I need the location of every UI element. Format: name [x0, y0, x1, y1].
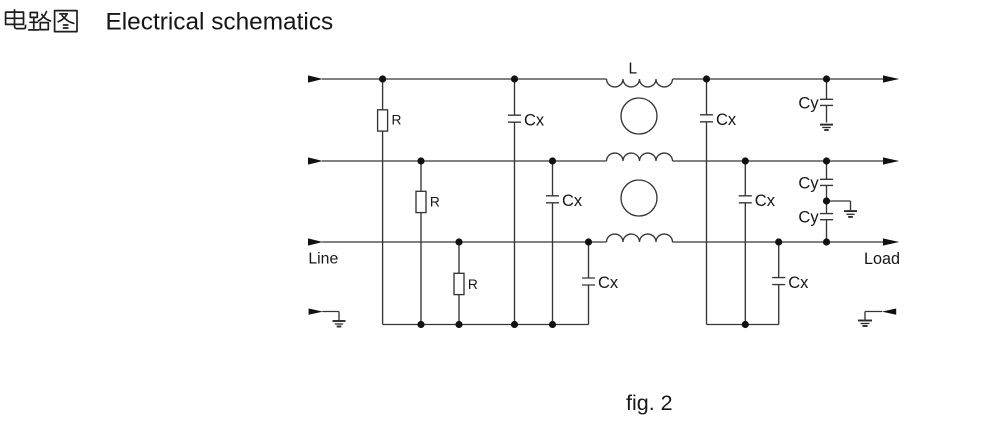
svg-text:Cy: Cy	[798, 209, 819, 227]
svg-text:Cx: Cx	[788, 274, 809, 292]
svg-text:Cx: Cx	[598, 274, 619, 292]
svg-text:R: R	[468, 277, 478, 292]
svg-text:Load: Load	[864, 250, 900, 268]
svg-text:Cx: Cx	[755, 192, 776, 210]
svg-text:Electrical schematics: Electrical schematics	[106, 8, 334, 35]
svg-text:Cx: Cx	[524, 111, 545, 129]
svg-text:Cy: Cy	[798, 174, 819, 192]
svg-text:Cy: Cy	[798, 94, 819, 112]
svg-text:R: R	[392, 112, 402, 127]
svg-text:Cx: Cx	[562, 192, 583, 210]
svg-text:R: R	[430, 195, 440, 210]
svg-text:L: L	[629, 61, 638, 78]
svg-text:Cx: Cx	[716, 111, 737, 129]
svg-text:fig. 2: fig. 2	[626, 391, 673, 415]
svg-text:Line: Line	[308, 251, 338, 268]
